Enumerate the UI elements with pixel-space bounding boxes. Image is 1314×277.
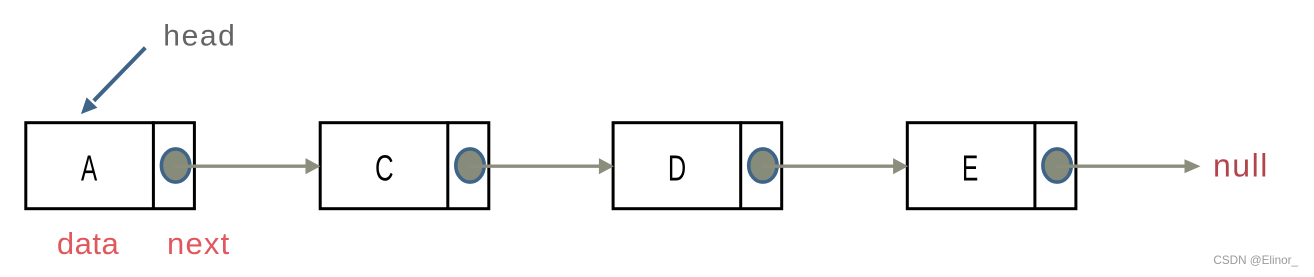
svg-text:CSDN @Elinor_: CSDN @Elinor_	[1213, 254, 1298, 267]
svg-text:null: null	[1213, 148, 1269, 184]
svg-text:A: A	[81, 147, 98, 188]
svg-text:next: next	[167, 226, 230, 261]
svg-text:head: head	[163, 20, 236, 53]
svg-text:D: D	[668, 147, 686, 188]
svg-text:data: data	[57, 226, 120, 261]
svg-text:C: C	[375, 147, 394, 188]
svg-text:E: E	[962, 147, 978, 188]
